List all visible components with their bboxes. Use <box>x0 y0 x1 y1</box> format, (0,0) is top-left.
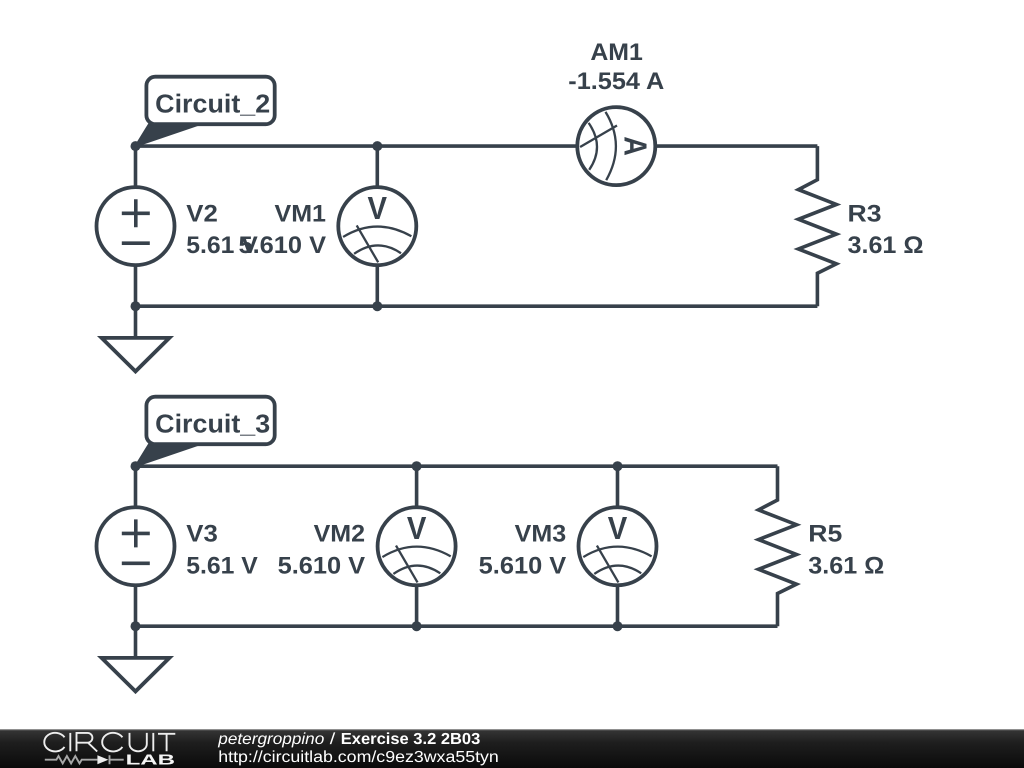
svg-text:V: V <box>368 190 388 226</box>
svg-text:Circuit_3: Circuit_3 <box>155 409 270 439</box>
svg-text:3.61 Ω: 3.61 Ω <box>848 232 924 259</box>
svg-text:AM1: AM1 <box>590 39 643 66</box>
svg-text:3.61 Ω: 3.61 Ω <box>808 552 884 579</box>
svg-text:V2: V2 <box>186 201 218 228</box>
svg-text:A: A <box>618 136 654 156</box>
svg-text:petergroppino / Exercise 3.2 2: petergroppino / Exercise 3.2 2B03 <box>217 731 480 748</box>
svg-text:5.610 V: 5.610 V <box>479 552 567 579</box>
svg-text:Circuit_2: Circuit_2 <box>155 89 270 119</box>
svg-text:V: V <box>407 510 427 546</box>
svg-text:VM1: VM1 <box>275 201 327 228</box>
svg-text:R5: R5 <box>808 521 842 548</box>
svg-text:5.610 V: 5.610 V <box>239 232 327 259</box>
svg-text:5.610 V: 5.610 V <box>278 552 366 579</box>
svg-text:V3: V3 <box>186 521 218 548</box>
svg-text:http://circuitlab.com/c9ez3wxa: http://circuitlab.com/c9ez3wxa55tyn <box>218 749 499 766</box>
svg-text:VM2: VM2 <box>314 521 366 548</box>
svg-text:R3: R3 <box>848 201 882 228</box>
svg-text:-1.554 A: -1.554 A <box>568 68 664 95</box>
svg-text:LAB: LAB <box>126 753 176 768</box>
svg-text:5.61 V: 5.61 V <box>186 552 257 579</box>
svg-text:VM3: VM3 <box>515 521 567 548</box>
svg-text:V: V <box>608 510 628 546</box>
